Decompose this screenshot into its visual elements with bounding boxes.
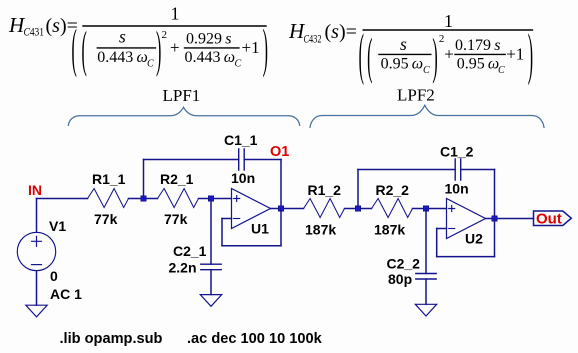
node O1 label xyxy=(270,144,289,160)
wire R1_1 to R2_1 xyxy=(129,198,158,200)
svg-text:10n: 10n xyxy=(445,181,469,197)
svg-text:s: s xyxy=(400,34,407,54)
label 187k (R1_2) xyxy=(305,222,336,238)
svg-text:LPF1: LPF1 xyxy=(163,86,201,105)
label AC 1 xyxy=(50,286,82,302)
label LPF2 xyxy=(397,86,435,105)
svg-text:(: ( xyxy=(359,24,364,87)
svg-text:V1: V1 xyxy=(49,218,66,234)
svg-text:C432: C432 xyxy=(304,32,322,46)
ground C2_2 xyxy=(415,304,436,316)
node N4 junction xyxy=(355,206,360,211)
svg-text:C: C xyxy=(147,59,154,70)
label 10n (C1_1) xyxy=(231,170,255,186)
label U1 xyxy=(251,221,269,237)
svg-text:0.929 s: 0.929 s xyxy=(186,31,231,48)
capacitor C1_1 xyxy=(239,149,245,170)
svg-text:.lib opamp.sub: .lib opamp.sub xyxy=(60,331,163,347)
node N2 junction xyxy=(208,196,213,201)
ground C2_1 xyxy=(200,295,221,307)
svg-text:+: + xyxy=(444,45,454,64)
wire U1 output xyxy=(271,208,304,210)
label Out xyxy=(536,211,562,228)
capacitor C2_2 xyxy=(416,274,436,280)
wire V1 to ground xyxy=(36,271,38,306)
formula H_C431 xyxy=(8,4,268,79)
node N5 junction xyxy=(423,206,428,211)
wire N6 down xyxy=(494,219,496,257)
wire loop up U2 xyxy=(436,229,438,257)
svg-text:0.443 ω: 0.443 ω xyxy=(185,49,236,66)
svg-text:1: 1 xyxy=(444,11,453,31)
wire feedback2 top right xyxy=(461,169,495,171)
label R2_1 xyxy=(160,171,194,187)
svg-text:77k: 77k xyxy=(94,211,118,227)
node N3 junction xyxy=(278,206,283,211)
node N6 junction xyxy=(492,216,497,221)
resistor R1_1 xyxy=(88,189,129,208)
svg-text:C431: C431 xyxy=(24,25,45,39)
label 187k (R2_2) xyxy=(374,222,405,238)
svg-text:C: C xyxy=(498,65,505,76)
wire to U2 minus input xyxy=(437,228,447,230)
svg-text:): ) xyxy=(263,19,268,79)
wire N3 down xyxy=(280,209,282,246)
svg-text:C: C xyxy=(423,65,430,76)
wire feedback2 top left xyxy=(358,169,455,171)
label C1_2 xyxy=(440,144,474,160)
op-amp U2 xyxy=(447,199,486,239)
svg-text:LPF2: LPF2 xyxy=(397,86,435,105)
svg-text:+1: +1 xyxy=(506,45,524,64)
svg-text:0.95 ω: 0.95 ω xyxy=(457,56,500,73)
svg-text:R1_2: R1_2 xyxy=(308,182,342,198)
label R2_2 xyxy=(376,182,410,198)
svg-text:C2_2: C2_2 xyxy=(387,256,421,272)
svg-text:10n: 10n xyxy=(231,170,255,186)
formula H_C432 xyxy=(288,11,533,87)
wire feedback right down xyxy=(280,160,282,209)
output flag Out xyxy=(534,211,572,226)
node IN label xyxy=(28,182,42,198)
svg-text:C2_1: C2_1 xyxy=(173,243,207,259)
svg-text:+1: +1 xyxy=(242,38,260,57)
svg-text:187k: 187k xyxy=(374,222,405,238)
svg-text:IN: IN xyxy=(28,182,42,198)
wire R1_2 to R2_2 xyxy=(345,208,372,210)
svg-text:0: 0 xyxy=(50,268,58,284)
svg-text:s: s xyxy=(119,27,126,47)
voltage source V1 xyxy=(17,232,55,270)
label 77k (R1_1) xyxy=(94,211,118,227)
svg-text:77k: 77k xyxy=(164,211,188,227)
resistor R2_2 xyxy=(372,199,413,218)
svg-text:Out: Out xyxy=(536,211,562,228)
spice directive .ac xyxy=(187,331,323,347)
svg-text:2: 2 xyxy=(162,29,168,41)
label R1_1 xyxy=(92,171,126,187)
svg-text:AC 1: AC 1 xyxy=(50,286,82,302)
wire loop bottom U2 xyxy=(437,256,495,258)
svg-text:.ac dec 100 10 100k: .ac dec 100 10 100k xyxy=(187,331,323,347)
svg-text:+: + xyxy=(170,38,180,57)
svg-text:(: ( xyxy=(82,22,87,79)
svg-text:(: ( xyxy=(72,19,77,79)
brace LPF2 xyxy=(310,105,544,127)
label LPF1 xyxy=(163,86,201,105)
wire N1 up to feedback xyxy=(143,160,145,199)
wire U2 output xyxy=(486,218,534,220)
resistor R1_2 xyxy=(304,199,345,218)
label R1_2 xyxy=(308,182,342,198)
wire to U1 minus input xyxy=(222,218,232,220)
svg-text:R2_2: R2_2 xyxy=(376,182,410,198)
svg-text:C1_1: C1_1 xyxy=(224,132,258,148)
svg-text:U1: U1 xyxy=(251,221,269,237)
spice directive .lib xyxy=(60,331,163,347)
label V1 xyxy=(49,218,66,234)
svg-text:C1_2: C1_2 xyxy=(440,144,474,160)
wire loop bottom U1 xyxy=(222,245,281,247)
label 77k (R2_1) xyxy=(164,211,188,227)
wire loop up U1 xyxy=(221,219,223,246)
wire N5 down to C2_2 xyxy=(425,209,427,274)
svg-text:80p: 80p xyxy=(388,271,412,287)
svg-text:0.443 ω: 0.443 ω xyxy=(97,49,148,66)
brace LPF1 xyxy=(68,107,299,125)
wire feedback top left xyxy=(144,159,239,161)
op-amp U1 xyxy=(232,189,271,229)
label C1_1 xyxy=(224,132,258,148)
wire N4 up to feedback 2 xyxy=(357,170,359,209)
svg-text:R2_1: R2_1 xyxy=(160,171,194,187)
svg-text:2: 2 xyxy=(439,33,445,45)
wire R2_1 to U1 plus input xyxy=(199,198,232,200)
svg-text:U2: U2 xyxy=(465,231,483,247)
svg-text:R1_1: R1_1 xyxy=(92,171,126,187)
label 10n (C1_2) xyxy=(445,181,469,197)
svg-text:187k: 187k xyxy=(305,222,336,238)
svg-text:C: C xyxy=(235,59,242,70)
svg-text:O1: O1 xyxy=(270,144,289,160)
svg-text:): ) xyxy=(432,28,437,85)
label U2 xyxy=(465,231,483,247)
node N1 junction xyxy=(141,196,146,201)
wire IN to V1 xyxy=(36,199,38,233)
wire feedback2 right down xyxy=(494,170,496,219)
label 2.2n xyxy=(169,260,197,276)
capacitor C1_2 xyxy=(455,159,461,180)
capacitor C2_1 xyxy=(201,264,221,270)
svg-text:2.2n: 2.2n xyxy=(169,260,197,276)
wire feedback top right xyxy=(244,159,281,161)
svg-text:0.95 ω: 0.95 ω xyxy=(381,56,424,73)
wire C2_1 to ground xyxy=(210,270,212,295)
label 0 xyxy=(50,268,58,284)
ground V1 xyxy=(26,305,47,317)
wire C2_2 to ground xyxy=(425,279,427,304)
svg-text:0.179 s: 0.179 s xyxy=(455,37,500,54)
svg-text:(s)=: (s)= xyxy=(325,21,357,43)
label C2_2 xyxy=(387,256,421,272)
resistor R2_1 xyxy=(158,189,199,208)
svg-text:1: 1 xyxy=(171,4,180,24)
svg-text:(: ( xyxy=(367,28,372,85)
wire N2 down to C2_1 xyxy=(210,199,212,265)
label C2_1 xyxy=(173,243,207,259)
wire IN horizontal xyxy=(37,198,88,200)
svg-text:): ) xyxy=(528,24,533,87)
label 80p xyxy=(388,271,412,287)
wire R2_2 to U2 plus input xyxy=(413,208,447,210)
